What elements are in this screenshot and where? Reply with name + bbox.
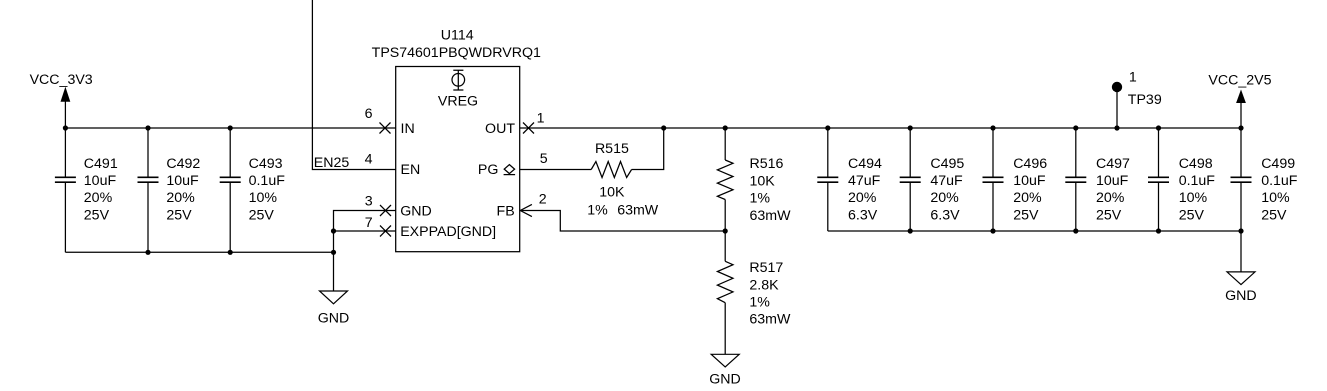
svg-text:47uF: 47uF: [848, 173, 881, 189]
power flag VCC_2V5: [1208, 73, 1271, 129]
svg-text:2.8K: 2.8K: [749, 277, 779, 293]
resistor R516: [717, 156, 791, 224]
wire: R517 to ground: [724, 303, 726, 355]
svg-text:20%: 20%: [1096, 190, 1125, 206]
svg-text:25V: 25V: [166, 207, 192, 223]
capacitor C491: [55, 128, 118, 252]
svg-text:OUT: OUT: [485, 121, 515, 137]
svg-text:1%: 1%: [587, 203, 608, 219]
svg-text:25V: 25V: [1179, 207, 1205, 223]
power flag VCC_3V3: [30, 72, 93, 128]
test point TP39: [1112, 70, 1162, 131]
no-connect X on pin OUT: [523, 123, 534, 134]
svg-text:25V: 25V: [84, 207, 110, 223]
svg-text:1%: 1%: [750, 191, 771, 207]
wire: FB pin to divider tap: [520, 211, 725, 232]
capacitor C499: [1231, 125, 1298, 233]
wire: PG pin to R515: [520, 169, 592, 171]
svg-text:VCC_3V3: VCC_3V3: [30, 72, 93, 88]
no-connect X on pin EXPPAD: [380, 226, 391, 237]
capacitor C492: [138, 125, 201, 255]
svg-text:C496: C496: [1013, 156, 1047, 172]
input arrow on pin FB: [520, 204, 532, 216]
wire: GND pin 3 to ground net: [334, 211, 396, 232]
svg-text:25V: 25V: [1096, 207, 1122, 223]
svg-text:C499: C499: [1261, 156, 1295, 172]
wire: OUT rail down to R516: [724, 128, 726, 160]
capacitor C494: [817, 125, 882, 231]
svg-text:20%: 20%: [1013, 190, 1042, 206]
capacitor C493: [220, 125, 286, 255]
ground symbol right: [1225, 272, 1257, 304]
capacitor C498: [1148, 125, 1215, 233]
svg-text:GND: GND: [709, 372, 741, 388]
wire: OUT rail to VCC_2V5: [520, 127, 1241, 129]
wire: R515 to OUT rail: [632, 128, 664, 170]
wire: EXPPAD pin 7 to ground net: [334, 230, 396, 232]
svg-text:R517: R517: [749, 260, 783, 276]
svg-text:GND: GND: [318, 310, 350, 326]
svg-text:VREG: VREG: [438, 93, 478, 109]
node: ground junction pin7: [331, 228, 336, 233]
svg-text:63mW: 63mW: [750, 208, 792, 224]
svg-text:3: 3: [365, 193, 373, 209]
regulator U114: [372, 27, 541, 251]
svg-text:10%: 10%: [249, 190, 278, 206]
ground symbol left: [318, 291, 350, 326]
svg-text:63mW: 63mW: [749, 312, 791, 328]
svg-text:7: 7: [365, 215, 373, 231]
svg-text:10K: 10K: [750, 173, 776, 189]
wire: right bottom rail: [828, 230, 1241, 232]
power pin symbol phi inside U114: [452, 70, 465, 91]
svg-text:U114: U114: [441, 27, 474, 43]
no-connect X on pin GND: [380, 205, 391, 216]
svg-text:C495: C495: [930, 156, 964, 172]
svg-text:6: 6: [365, 106, 373, 122]
node: R516 junction on OUT rail: [723, 125, 728, 130]
node: FB divider tap: [723, 228, 728, 233]
svg-text:25V: 25V: [1013, 207, 1039, 223]
svg-text:10uF: 10uF: [1013, 173, 1046, 189]
no-connect X on pin IN: [380, 123, 391, 134]
svg-text:C493: C493: [249, 156, 283, 172]
svg-text:IN: IN: [401, 121, 415, 137]
svg-text:4: 4: [365, 151, 373, 167]
svg-text:PG: PG: [478, 162, 499, 178]
wire: right rail to ground: [1240, 231, 1242, 272]
svg-text:FB: FB: [497, 204, 515, 220]
wire: left bottom rail to GND: [65, 251, 333, 253]
svg-text:10%: 10%: [1179, 190, 1208, 206]
svg-text:GND: GND: [400, 204, 432, 220]
svg-text:1%: 1%: [749, 295, 770, 311]
svg-text:R515: R515: [595, 141, 629, 157]
wire: tap down to R517: [724, 231, 726, 261]
svg-text:6.3V: 6.3V: [848, 207, 878, 223]
svg-text:2: 2: [539, 192, 547, 208]
svg-text:R516: R516: [750, 156, 784, 172]
svg-text:0.1uF: 0.1uF: [249, 173, 286, 189]
wire: ground drop: [333, 231, 335, 291]
svg-text:TPS74601PBQWDRVRQ1: TPS74601PBQWDRVRQ1: [372, 45, 541, 61]
svg-text:TP39: TP39: [1128, 92, 1162, 108]
ground symbol middle: [709, 354, 741, 387]
svg-text:1: 1: [537, 111, 545, 127]
capacitor C495: [900, 125, 965, 233]
svg-text:C491: C491: [84, 156, 118, 172]
svg-text:10uF: 10uF: [1096, 173, 1129, 189]
svg-text:25V: 25V: [1261, 207, 1287, 223]
svg-text:C497: C497: [1096, 156, 1130, 172]
svg-text:10K: 10K: [599, 184, 625, 200]
node: ground junction bottom rail: [331, 250, 336, 255]
resistor R515: [587, 141, 658, 218]
svg-text:6.3V: 6.3V: [930, 207, 960, 223]
wire: EN25 net from off-page down to EN pin: [312, 0, 395, 170]
svg-text:EN25: EN25: [314, 155, 350, 171]
svg-text:47uF: 47uF: [930, 173, 963, 189]
wire: R516 to FB tap node: [724, 200, 726, 232]
wire: VCC_3V3 top rail to IN pin: [65, 127, 395, 129]
node: R515 junction on OUT rail: [661, 125, 666, 130]
svg-text:EN: EN: [401, 162, 421, 178]
svg-text:C492: C492: [166, 156, 200, 172]
svg-text:GND: GND: [1225, 288, 1257, 304]
svg-text:C494: C494: [848, 156, 882, 172]
svg-text:63mW: 63mW: [617, 203, 659, 219]
open-drain diamond on pin PG: [504, 165, 515, 175]
svg-text:20%: 20%: [166, 190, 195, 206]
svg-text:EXPPAD[GND]: EXPPAD[GND]: [400, 224, 496, 240]
svg-text:5: 5: [540, 151, 548, 167]
svg-text:20%: 20%: [930, 190, 959, 206]
node: VCC_3V3 junction at C491: [63, 125, 68, 130]
svg-text:VCC_2V5: VCC_2V5: [1208, 73, 1271, 89]
svg-text:20%: 20%: [848, 190, 877, 206]
svg-text:10uF: 10uF: [166, 173, 199, 189]
capacitor C496: [983, 125, 1048, 233]
svg-text:0.1uF: 0.1uF: [1261, 173, 1298, 189]
svg-text:C498: C498: [1179, 156, 1213, 172]
capacitor C497: [1065, 125, 1130, 233]
resistor R517: [717, 260, 791, 328]
svg-text:20%: 20%: [84, 190, 113, 206]
svg-text:25V: 25V: [249, 207, 275, 223]
svg-text:1: 1: [1129, 70, 1137, 86]
svg-text:10%: 10%: [1261, 190, 1290, 206]
svg-text:0.1uF: 0.1uF: [1179, 173, 1216, 189]
svg-text:10uF: 10uF: [84, 173, 117, 189]
